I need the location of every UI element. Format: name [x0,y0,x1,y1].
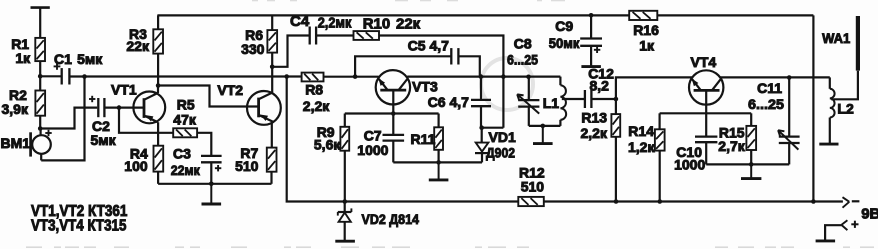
svg-text:100: 100 [124,158,148,174]
svg-text:C4: C4 [290,13,310,30]
svg-text:VD2 Д814: VD2 Д814 [362,211,420,227]
svg-text:WA1: WA1 [822,30,850,46]
svg-text:6...25: 6...25 [507,51,538,67]
svg-text:5,6к: 5,6к [314,137,341,153]
svg-text:5мк: 5мк [77,51,103,67]
svg-text:VT2: VT2 [217,82,243,98]
svg-text:47к: 47к [173,112,197,128]
svg-text:1к: 1к [639,37,655,53]
svg-text:VT1: VT1 [111,82,137,98]
svg-text:1к: 1к [15,50,31,66]
svg-text:L2: L2 [837,100,854,116]
svg-text:3,9к: 3,9к [2,101,29,117]
svg-text:C5 4,7: C5 4,7 [408,37,449,53]
svg-text:330: 330 [241,41,265,57]
svg-text:R5: R5 [177,97,195,113]
svg-text:R11: R11 [411,131,436,147]
svg-text:510: 510 [235,158,259,174]
svg-text:R16: R16 [633,22,659,38]
svg-text:R8: R8 [305,82,323,98]
svg-text:2,7к: 2,7к [718,138,745,154]
svg-text:1000: 1000 [674,157,705,173]
svg-text:510: 510 [521,179,545,195]
svg-text:6...25: 6...25 [748,96,784,112]
svg-text:C1: C1 [54,51,72,67]
svg-text:22к: 22к [126,38,150,54]
svg-text:BM1: BM1 [1,135,31,151]
svg-text:2,2мк: 2,2мк [318,15,352,32]
svg-text:R14: R14 [628,123,654,139]
svg-text:VT4: VT4 [691,54,717,70]
svg-text:1,2к: 1,2к [628,139,655,155]
svg-text:VD1: VD1 [489,129,516,145]
svg-text:22к: 22к [396,15,421,32]
svg-text:R13: R13 [581,110,607,126]
svg-text:VT3,VT4 КТ315: VT3,VT4 КТ315 [31,217,127,234]
svg-text:R10: R10 [363,15,391,32]
svg-text:5мк: 5мк [91,132,117,148]
svg-text:Д902: Д902 [486,145,515,161]
svg-text:22мк: 22мк [171,162,201,178]
svg-text:C3: C3 [173,146,191,162]
svg-text:C8: C8 [514,35,532,51]
svg-text:C6 4,7: C6 4,7 [428,94,469,110]
svg-text:9В: 9В [861,206,878,223]
svg-text:50мк: 50мк [549,35,581,51]
svg-text:2,2к: 2,2к [581,125,608,141]
svg-text:C11: C11 [757,80,782,96]
svg-text:C9: C9 [555,18,573,34]
svg-text:L1: L1 [543,95,560,111]
svg-text:8,2: 8,2 [590,78,610,94]
svg-text:VT3: VT3 [412,79,438,95]
svg-text:2,2к: 2,2к [303,98,330,114]
svg-text:1000: 1000 [357,142,388,158]
